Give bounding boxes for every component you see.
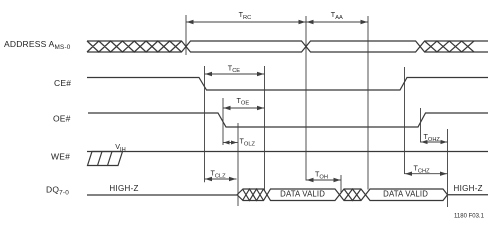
svg-text:TAA: TAA [331, 10, 343, 21]
DQ high-Z line right [448, 194, 489, 196]
svg-text:DQ7-0: DQ7-0 [46, 185, 69, 197]
dimension line x=238 [237, 123, 239, 206]
svg-text:TOH: TOH [315, 170, 328, 181]
dimension line x=447.5 [447, 129, 449, 207]
svg-text:DATA VALID: DATA VALID [280, 190, 325, 199]
svg-text:CE#: CE# [54, 78, 71, 88]
TRC arrow [186, 21, 306, 23]
svg-text:WE#: WE# [51, 152, 70, 162]
svg-text:TOLZ: TOLZ [240, 137, 256, 148]
svg-text:TCE: TCE [228, 63, 240, 74]
svg-text:TCLZ: TCLZ [211, 169, 227, 180]
DQ bus line A [237, 189, 448, 201]
svg-text:TCHZ: TCHZ [414, 164, 431, 175]
svg-text:1180 F03.1: 1180 F03.1 [454, 214, 485, 220]
svg-text:TRC: TRC [239, 10, 252, 21]
DQ crosshatch 1 [243, 189, 264, 201]
dimension line x=186 [185, 15, 187, 55]
TAA arrow [306, 21, 368, 23]
dimension line x=368 [367, 16, 369, 190]
TOH arrow [306, 179, 341, 181]
dimension line x=306 [305, 16, 307, 181]
TCLZ arrow [205, 178, 237, 180]
DQ bus line B [237, 189, 448, 201]
dimension line x=404.5 [404, 67, 406, 174]
OE# waveform [88, 113, 488, 127]
DQ crosshatch 2 [344, 189, 361, 201]
svg-text:DATA VALID: DATA VALID [383, 190, 428, 199]
TOE arrow [223, 107, 265, 109]
WE# hatch parallelogram [88, 152, 123, 166]
TCE arrow [205, 73, 265, 75]
dimension tick x=420.5 [420, 108, 422, 143]
dimension tick x=223 [222, 98, 224, 145]
address crosshatch left [87, 41, 182, 52]
svg-text:ADDRESS AMS-0: ADDRESS AMS-0 [4, 39, 71, 51]
DQ high-Z line left [87, 194, 237, 196]
dimension tick x=341 [340, 175, 342, 192]
address crosshatch right [425, 41, 474, 52]
WE# waveform [87, 151, 488, 153]
svg-text:OE#: OE# [53, 114, 71, 124]
TOLZ arrow [223, 142, 238, 144]
address bus line A [87, 41, 488, 52]
svg-text:HIGH-Z: HIGH-Z [109, 184, 138, 193]
TCHZ arrow [405, 173, 448, 175]
address bus line B [87, 41, 488, 52]
svg-text:TOE: TOE [237, 96, 250, 107]
svg-text:HIGH-Z: HIGH-Z [454, 184, 483, 193]
dimension line x=204.5 [204, 66, 206, 182]
dimension line x=264.5 [264, 66, 266, 190]
CE# waveform [87, 78, 488, 91]
TOHZ arrow [421, 141, 448, 143]
